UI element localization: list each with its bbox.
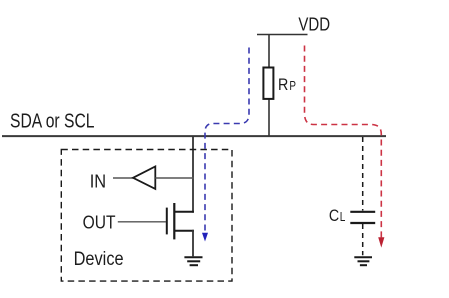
svg-text:C: C (329, 206, 339, 225)
svg-text:SDA or SCL: SDA or SCL (10, 111, 95, 133)
svg-text:P: P (289, 79, 296, 93)
svg-text:R: R (278, 75, 288, 94)
svg-text:OUT: OUT (83, 212, 116, 232)
svg-text:L: L (340, 210, 346, 224)
svg-text:IN: IN (90, 171, 106, 191)
svg-text:VDD: VDD (298, 15, 330, 35)
svg-text:Device: Device (74, 249, 124, 270)
